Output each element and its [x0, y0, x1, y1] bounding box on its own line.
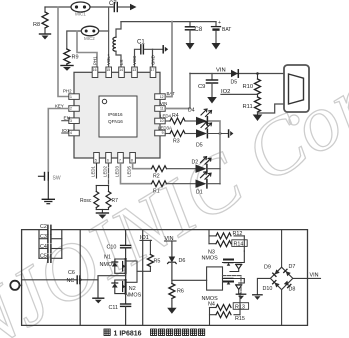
- wire KEY to SW: [48, 109, 69, 173]
- ground for C9: [207, 97, 217, 104]
- svg-text:LED2: LED2: [103, 165, 108, 177]
- diode bridge D9 D7 D10 D8: [263, 264, 296, 293]
- capacitor C5: [39, 254, 62, 263]
- svg-text:R7: R7: [112, 198, 119, 204]
- svg-text:7: 7: [119, 159, 121, 163]
- wire Rosc R7 join: [96, 210, 108, 213]
- wire bridge left to ground: [257, 278, 270, 294]
- svg-text:13: 13: [132, 68, 136, 72]
- resistor R9: [64, 49, 79, 65]
- svg-text:VIN: VIN: [310, 272, 319, 278]
- capacitor C11: [109, 294, 131, 326]
- svg-text:17: 17: [151, 68, 155, 72]
- svg-text:D2: D2: [192, 160, 199, 166]
- node VIN bottom label: [165, 236, 177, 242]
- wire VIN rail / node VIN: [190, 68, 284, 74]
- wire MIC2 left to R9: [67, 31, 82, 49]
- wire MIC2 right to VOL riser: [99, 30, 109, 32]
- wire N3 N4 gate box: [207, 267, 223, 290]
- wire VIN pin riser: [165, 74, 190, 109]
- svg-text:VIN: VIN: [160, 101, 167, 106]
- capacitor C9: [198, 74, 218, 98]
- svg-text:C10: C10: [107, 245, 117, 251]
- svg-text:NC: NC: [67, 278, 75, 284]
- connector pogo circle: [10, 281, 19, 290]
- resistor R5: [147, 240, 160, 271]
- wire N1 N2 gate box: [126, 261, 137, 282]
- svg-text:BAT: BAT: [222, 27, 231, 33]
- resistor R4: [170, 113, 185, 124]
- svg-text:12: 12: [160, 95, 164, 99]
- resistor R6: [169, 284, 184, 308]
- pin 7 LED3 bottom: [115, 153, 124, 177]
- wire LED3A to R3: [165, 133, 170, 135]
- svg-text:VCC: VCC: [132, 56, 137, 65]
- svg-text:PH2: PH2: [63, 89, 72, 94]
- svg-text:LED4: LED4: [160, 114, 172, 119]
- svg-text:1: 1: [70, 95, 72, 99]
- svg-text:NMOS: NMOS: [100, 262, 117, 268]
- microphone MIC2: [81, 26, 98, 41]
- pin 8 LED5 bottom: [127, 153, 136, 177]
- battery BAT: [212, 20, 232, 43]
- switch SW: [39, 173, 61, 199]
- svg-text:C6: C6: [68, 270, 75, 276]
- svg-text:LED3A: LED3A: [158, 126, 172, 131]
- wire bridge bottom riser: [281, 290, 283, 326]
- svg-text:R1: R1: [153, 189, 160, 195]
- svg-text:BAT: BAT: [167, 91, 176, 96]
- transistor N3: [202, 250, 245, 272]
- pin 17 GND top: [150, 55, 156, 77]
- svg-text:NMOS: NMOS: [202, 255, 219, 261]
- wire C1 to GND pin and gnd symbol: [144, 49, 162, 67]
- capacitor C10: [107, 245, 131, 251]
- svg-text:1 IP6816: 1 IP6816: [114, 331, 142, 338]
- node EN stub: [62, 116, 71, 122]
- svg-text:D8: D8: [289, 286, 296, 292]
- watermark registered mark: [289, 115, 299, 125]
- svg-text:R12: R12: [233, 231, 243, 237]
- wire LED1 stub: [96, 163, 98, 178]
- ground for R9: [61, 66, 73, 71]
- capacitor C3: [39, 234, 62, 243]
- svg-text:D1: D1: [196, 190, 203, 196]
- svg-text:8: 8: [131, 159, 133, 163]
- wire D5 cathode to test point: [208, 132, 228, 135]
- svg-text:Rosc: Rosc: [80, 198, 92, 204]
- resistor R15: [210, 312, 245, 322]
- svg-text:LED5: LED5: [127, 165, 132, 177]
- pin 15 VOL+ top: [106, 53, 112, 77]
- wire PH2 riser: [58, 7, 74, 97]
- diode D5: [231, 70, 239, 86]
- ground under N3 N4: [236, 294, 245, 299]
- wire bridge top riser: [281, 230, 283, 268]
- wire inductor to LX pin: [116, 51, 121, 67]
- wire VOL+ riser: [108, 7, 110, 67]
- svg-text:D10: D10: [263, 286, 273, 292]
- wire USB ground return: [258, 104, 285, 113]
- svg-text:9: 9: [162, 131, 164, 135]
- svg-text:C9: C9: [198, 84, 205, 90]
- svg-text:6: 6: [107, 159, 109, 163]
- wire battery bus: [121, 21, 216, 23]
- resistor R10: [243, 72, 261, 94]
- ground for C8: [186, 43, 195, 50]
- svg-text:14: 14: [119, 68, 123, 72]
- svg-text:5: 5: [95, 159, 97, 163]
- wire R5 to gate box: [137, 270, 150, 272]
- svg-text:LX: LX: [119, 60, 124, 65]
- transistor N4: [202, 278, 245, 307]
- capacitor C2: [40, 224, 51, 234]
- LED D1: [167, 172, 211, 196]
- wire LED3 pin to R1: [121, 163, 151, 184]
- svg-text:C7: C7: [109, 1, 117, 7]
- node IO2 wire: [221, 89, 258, 95]
- svg-text:C11: C11: [109, 305, 119, 311]
- svg-text:R15: R15: [235, 316, 245, 322]
- wire N1 source to ground branch: [98, 276, 126, 298]
- node IO1 stub: [62, 128, 70, 134]
- svg-text:R6: R6: [177, 289, 184, 295]
- ground under N1: [93, 298, 104, 303]
- svg-text:VIN: VIN: [216, 68, 226, 74]
- inductor L1: [113, 37, 116, 51]
- capacitor C8: [186, 22, 203, 43]
- ground for R6: [167, 308, 176, 314]
- wire top bus to C7: [45, 6, 113, 8]
- wire common cathode vertical: [219, 121, 221, 184]
- caption figure title: [104, 329, 205, 338]
- svg-text:MIC2: MIC2: [84, 36, 95, 41]
- ground for SW: [42, 199, 54, 203]
- wire LED5 pin to R2: [133, 163, 151, 169]
- svg-text:D6: D6: [179, 258, 186, 264]
- svg-text:R10: R10: [243, 84, 254, 90]
- node IO1 label: [140, 235, 152, 241]
- svg-text:+: +: [218, 20, 221, 26]
- svg-text:D4: D4: [188, 108, 195, 114]
- resistor Rosc: [80, 186, 109, 210]
- pin 11 VIN right: [155, 101, 168, 111]
- svg-text:GND: GND: [151, 55, 156, 65]
- diode D6: [168, 241, 186, 264]
- svg-text:N4: N4: [208, 301, 215, 307]
- wire gate box to ground branch: [223, 276, 242, 294]
- transistor N1: [100, 248, 126, 273]
- capacitor C1: [135, 40, 146, 68]
- svg-text:IP6816: IP6816: [108, 112, 123, 117]
- capacitor C7: [109, 1, 117, 12]
- svg-text:LED1: LED1: [91, 165, 96, 177]
- svg-text:16: 16: [93, 68, 97, 72]
- wire R13 R15 connections: [210, 294, 241, 326]
- svg-text:R9: R9: [72, 55, 79, 61]
- resistor R7: [106, 186, 118, 210]
- pin 16 PH1 top: [92, 56, 98, 78]
- LED D4: [185, 108, 212, 126]
- svg-text:C2: C2: [40, 224, 47, 230]
- svg-text:R3: R3: [173, 139, 180, 145]
- svg-text:R8: R8: [33, 22, 40, 28]
- svg-text:QFN16: QFN16: [108, 119, 123, 124]
- resistor R11: [243, 94, 261, 114]
- svg-text:D5: D5: [231, 80, 238, 86]
- svg-text:LED3: LED3: [115, 165, 120, 177]
- connector USB: [284, 65, 309, 112]
- ground for R8: [40, 34, 51, 40]
- svg-text:MIC1: MIC1: [75, 12, 86, 17]
- svg-text:VOL+: VOL+: [106, 53, 111, 65]
- pin 13 VCC top: [132, 56, 138, 78]
- svg-text:C1: C1: [137, 40, 145, 46]
- svg-text:3: 3: [70, 119, 72, 123]
- svg-text:NMOS: NMOS: [125, 292, 142, 298]
- transistor N2: [112, 273, 142, 298]
- wire bottom block outer box: [22, 230, 308, 326]
- svg-text:C5: C5: [40, 254, 47, 260]
- pin 6 LED2 bottom: [103, 153, 112, 177]
- resistor R13: [210, 303, 249, 311]
- svg-text:15: 15: [106, 68, 110, 72]
- svg-text:4: 4: [70, 131, 72, 135]
- svg-text:R14: R14: [234, 241, 244, 247]
- pin 9 LED3A right: [155, 126, 172, 136]
- wire cap ladder rails: [39, 230, 62, 259]
- pin 5 LED1 bottom: [91, 153, 100, 177]
- resistor R8: [33, 7, 48, 34]
- svg-text:N2: N2: [129, 286, 136, 292]
- pin 2 KEY left: [55, 104, 79, 112]
- svg-text:SW: SW: [53, 176, 61, 182]
- wire divider left: [79, 230, 81, 326]
- svg-text:EN: EN: [64, 116, 71, 122]
- capacitor C6: [22, 270, 82, 284]
- wire C6 to NMOS midpoint: [80, 279, 98, 281]
- svg-text:R11: R11: [243, 104, 253, 110]
- wire bridge right VIN out: [293, 272, 321, 278]
- resistor R2: [152, 166, 167, 180]
- wire D2 cathode: [207, 168, 220, 170]
- svg-text:11: 11: [160, 107, 164, 111]
- svg-text:R2: R2: [153, 174, 160, 180]
- wire node A riser: [208, 230, 210, 244]
- pin 1 PH2 left: [63, 89, 79, 100]
- svg-text:D5: D5: [196, 143, 203, 149]
- pin 3 EN left: [69, 118, 80, 124]
- wire C7 to off-page arrow: [119, 4, 137, 10]
- pin 14 LX top: [119, 60, 125, 78]
- wire D1 cathode: [207, 183, 220, 185]
- wire chain top to C10: [125, 230, 127, 245]
- wire R12 R14 to N3: [243, 236, 245, 251]
- microphone MIC1: [71, 2, 90, 17]
- svg-text:R4: R4: [172, 113, 179, 119]
- wire bus to inductor: [116, 22, 121, 37]
- svg-text:R5: R5: [154, 259, 161, 265]
- wire D6 to R6 and NMOS: [172, 264, 207, 284]
- svg-text:2: 2: [70, 107, 72, 111]
- resistor R3: [170, 131, 185, 145]
- wire BAT pin riser: [165, 22, 172, 97]
- svg-text:D9: D9: [264, 265, 271, 271]
- capacitor C4: [39, 244, 62, 253]
- pin 10 LED4 right: [155, 114, 172, 124]
- svg-text:D7: D7: [289, 264, 296, 270]
- ground for BAT: [212, 43, 221, 50]
- wire LED2 pin to Rosc: [108, 163, 110, 186]
- ground for R11: [253, 115, 263, 122]
- svg-text:C3: C3: [40, 234, 47, 240]
- LED D2: [167, 157, 211, 173]
- resistor R12: [209, 231, 244, 239]
- svg-text:N1: N1: [104, 254, 111, 260]
- resistor R1: [152, 181, 167, 195]
- ground sideways near C1: [163, 46, 168, 53]
- svg-text:C8: C8: [195, 27, 203, 33]
- op-amp U1 IC body QFN16: [74, 72, 160, 158]
- ground sideways test point: [229, 130, 234, 137]
- pin 12 BAT right: [155, 91, 175, 99]
- wire LED4 to R4: [165, 120, 170, 122]
- svg-text:10: 10: [160, 119, 164, 123]
- LED D5b: [185, 122, 212, 149]
- svg-text:C4: C4: [40, 244, 47, 250]
- wire D4 cathode: [208, 120, 220, 122]
- svg-text:IO1: IO1: [62, 128, 70, 134]
- resistor R14: [209, 240, 247, 248]
- wire divider right: [142, 230, 144, 326]
- ground under bridge: [253, 295, 262, 300]
- pin 4 IO1 left: [69, 130, 80, 136]
- ground for Rosc R7: [96, 213, 108, 219]
- wire MIC2 node to PH1 pin: [77, 31, 97, 67]
- svg-text:PH1: PH1: [93, 56, 98, 65]
